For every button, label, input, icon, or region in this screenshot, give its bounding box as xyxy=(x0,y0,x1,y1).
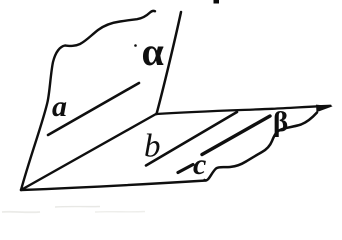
plane beta: top edge xyxy=(157,106,331,114)
plane beta: wavy right edge xyxy=(205,113,318,181)
faint scan smudge bottom left xyxy=(2,207,145,213)
svg-text:c: c xyxy=(193,148,206,181)
plane alpha: left + top wavy edge xyxy=(21,11,155,190)
line c dash (left of label) xyxy=(178,165,193,173)
line a (in plane alpha) xyxy=(48,83,139,135)
plane beta: bottom edge xyxy=(21,181,206,191)
line c main segment xyxy=(202,116,270,155)
line b (in plane beta) xyxy=(146,112,237,166)
fold line (intersection of planes), vertex to junction xyxy=(21,114,156,190)
svg-text:α: α xyxy=(142,29,164,74)
pen wedge at right end of top edge xyxy=(316,105,333,113)
dot left of alpha xyxy=(134,44,137,47)
cropped text fragment (black square) at top xyxy=(214,0,220,4)
plane alpha: right edge xyxy=(157,12,182,114)
svg-text:b: b xyxy=(144,129,161,165)
svg-text:a: a xyxy=(52,90,67,123)
svg-text:β: β xyxy=(273,106,288,138)
